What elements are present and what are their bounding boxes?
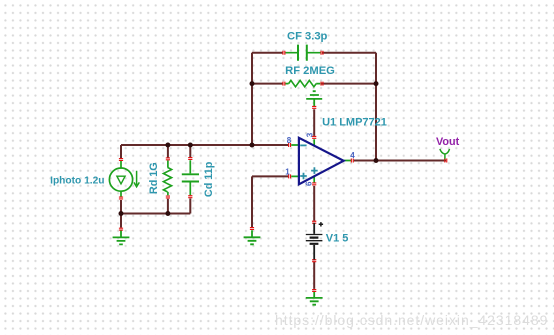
svg-text:8: 8 [287, 136, 292, 145]
svg-text:1: 1 [285, 167, 290, 176]
svg-text:U1 LMP7721: U1 LMP7721 [322, 117, 387, 129]
svg-text:Vout: Vout [436, 136, 460, 148]
svg-text:3: 3 [305, 132, 314, 137]
svg-text:6: 6 [305, 181, 314, 186]
svg-text:RF 2MEG: RF 2MEG [285, 65, 335, 77]
svg-text:Iphoto 1.2u: Iphoto 1.2u [50, 175, 104, 186]
svg-text:Cd 11p: Cd 11p [203, 161, 215, 197]
svg-text:4: 4 [350, 151, 355, 160]
svg-text:Rd 1G: Rd 1G [148, 162, 160, 194]
svg-text:CF 3.3p: CF 3.3p [287, 31, 328, 43]
svg-text:V1 5: V1 5 [326, 232, 349, 244]
